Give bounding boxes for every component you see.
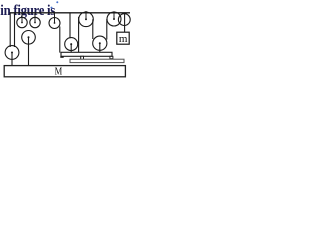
rope from L3 to platform [59,27,61,53]
svg-text:M: M [55,66,63,78]
pin R3 to mass box [124,13,126,33]
rope from R1 left to platform [78,17,80,53]
pulley R2 circle [107,12,121,26]
platform bar [61,52,112,56]
pin L3 [54,12,56,24]
rope R2 left to S2 [106,19,108,40]
pulley R1 circle [79,12,94,27]
right leg under platform [110,56,113,58]
rope left outer [9,13,11,47]
pulley L4 circle (movable) [22,31,36,45]
cart M body [4,66,125,77]
pulley S1 stand post [70,44,72,53]
stray blue dot (i tittle) [51,7,53,9]
deck bar [70,59,124,62]
pulley L4 rod to cart [28,37,30,65]
stray blue speck above "is" [56,1,58,3]
pulley R2 axle dot [113,18,115,20]
pulley L1 circle [17,17,27,27]
pulley LB circle [5,46,19,60]
rope left inner [14,13,16,47]
pulley L1 axle dot [21,22,23,24]
pulley L4 axle dot [28,36,30,38]
pulley S1 axle dot [70,43,72,45]
rope from bar down to pulley S1 [69,13,71,38]
pin L1 [21,13,23,23]
pulley R3 circle (at bar end) [118,14,130,26]
pulley L2 circle [30,17,40,27]
ceiling bar [10,12,130,14]
rope R1 right to S2 [92,19,94,39]
pulley LB axle dot [11,52,13,54]
pin L2 [34,13,36,23]
mass m box [117,32,129,44]
support post under platform [81,56,84,59]
pulley L2 axle dot [34,22,36,24]
pulley S2 circle (on stand) [93,36,107,50]
pulley S2 axle dot [99,42,101,44]
svg-text:m: m [119,33,128,45]
pulley L3 circle [49,18,60,29]
svg-text:in figure is: in figure is [0,3,56,19]
pulley L3 axle dot [54,22,56,24]
pin R1 [85,11,87,19]
pin R2 [113,11,115,19]
pulley R1 axle dot [85,18,87,20]
pulley S1 circle (on stand) [65,38,78,51]
pulley LB post [11,53,13,66]
platform anchor stub [60,56,63,58]
background [0,0,156,84]
pulley S2 stand post [99,43,101,53]
